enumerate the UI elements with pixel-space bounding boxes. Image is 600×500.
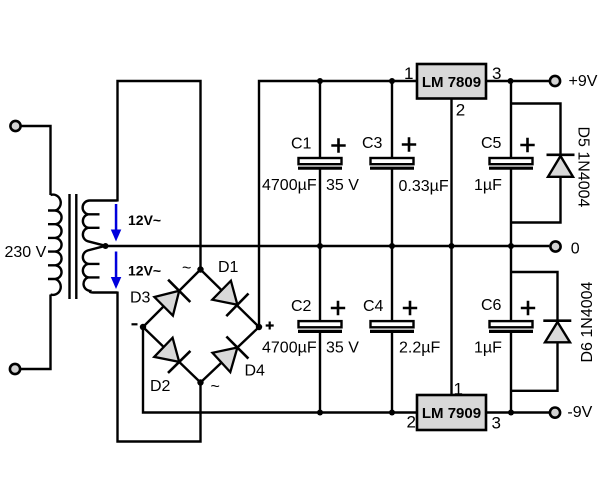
svg-text:D4: D4 xyxy=(245,363,266,380)
svg-text:~: ~ xyxy=(182,260,191,277)
svg-text:0.33µF: 0.33µF xyxy=(399,178,449,195)
svg-text:2: 2 xyxy=(456,100,465,119)
svg-text:~: ~ xyxy=(211,379,220,396)
svg-text:C1: C1 xyxy=(291,136,312,153)
svg-text:35 V: 35 V xyxy=(326,340,359,357)
svg-text:LM 7809: LM 7809 xyxy=(422,74,481,91)
svg-text:3: 3 xyxy=(492,413,501,432)
svg-text:2: 2 xyxy=(407,412,416,431)
svg-text:1: 1 xyxy=(454,379,463,398)
svg-text:1µF: 1µF xyxy=(474,340,502,357)
svg-text:1: 1 xyxy=(404,64,413,83)
svg-text:C5: C5 xyxy=(481,135,502,152)
svg-text:0: 0 xyxy=(571,241,580,258)
svg-text:35 V: 35 V xyxy=(326,177,359,194)
svg-text:LM 7909: LM 7909 xyxy=(422,405,481,422)
svg-text:D1: D1 xyxy=(218,259,239,276)
svg-text:2.2µF: 2.2µF xyxy=(399,340,440,357)
svg-text:230 V: 230 V xyxy=(5,244,47,261)
svg-text:12V~: 12V~ xyxy=(128,263,161,279)
svg-text:C6: C6 xyxy=(481,297,502,314)
svg-text:4700µF: 4700µF xyxy=(262,340,317,357)
svg-text:-9V: -9V xyxy=(567,404,592,421)
svg-text:C3: C3 xyxy=(362,135,383,152)
svg-text:D6 1N4004: D6 1N4004 xyxy=(579,281,596,362)
svg-text:+9V: +9V xyxy=(569,73,598,90)
svg-text:12V~: 12V~ xyxy=(128,212,161,228)
svg-text:D5 1N4004: D5 1N4004 xyxy=(575,127,592,208)
svg-text:3: 3 xyxy=(492,64,501,83)
svg-text:C2: C2 xyxy=(291,298,312,315)
svg-text:D2: D2 xyxy=(150,378,171,395)
svg-text:1µF: 1µF xyxy=(474,177,502,194)
svg-text:D3: D3 xyxy=(130,290,151,307)
svg-text:C4: C4 xyxy=(363,298,384,315)
svg-text:4700µF: 4700µF xyxy=(262,177,317,194)
